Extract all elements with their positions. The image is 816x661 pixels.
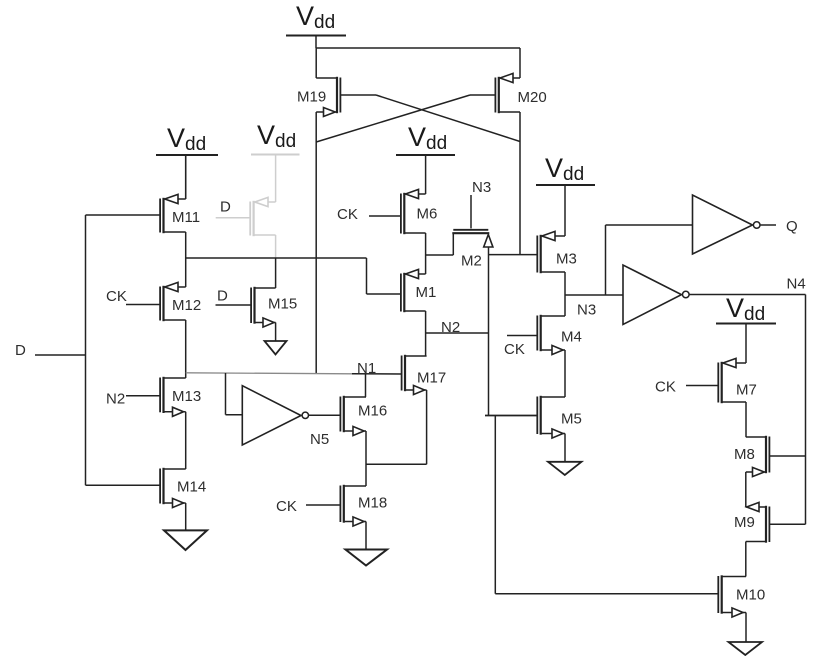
transistor M5 [485, 396, 582, 438]
svg-text:CK: CK [655, 379, 676, 396]
label CK at M7 gate [655, 379, 676, 396]
wire M11/M12 junction to M1 gate [186, 258, 401, 294]
ground under M15 [265, 323, 287, 355]
wire M7 drain to M8 [745, 402, 747, 437]
label Q [786, 218, 798, 235]
ground under M5 [548, 434, 582, 476]
wire M8 source to M9 [745, 472, 747, 507]
label D at M15 gate [217, 288, 228, 305]
wire junction down to M10 gate [495, 416, 718, 594]
wire riser to M19 source [315, 48, 317, 78]
svg-text:CK: CK [504, 341, 525, 358]
wire M1 drain to M17 (N2 column) [425, 311, 427, 356]
Vdd supply symbol (M3 column) [536, 153, 595, 236]
transistor M9 (mirrored) [734, 502, 806, 542]
label D input [15, 342, 26, 359]
transistor M19 [297, 77, 376, 117]
transistor M7 [686, 358, 757, 403]
wire M11 source to Vdd / stack rail [185, 155, 187, 530]
wire M3 drain to M4 (N3 node) [564, 272, 566, 316]
wire cross-couple M20 gate to M19 drain [316, 95, 470, 142]
wire riser to M20 source [519, 48, 521, 78]
svg-text:CK: CK [337, 206, 358, 223]
svg-text:CK: CK [276, 498, 297, 515]
label N1 [357, 360, 376, 377]
transistor M2 [426, 195, 493, 270]
svg-text:N2: N2 [106, 391, 125, 408]
wire M9 source to M10 drain [745, 542, 747, 577]
svg-text:M6: M6 [417, 206, 438, 223]
svg-text:N5: N5 [310, 431, 329, 448]
transistor M18 [306, 485, 387, 526]
Vdd supply symbol (M7 column) [716, 293, 776, 363]
svg-text:M10: M10 [736, 587, 765, 604]
svg-text:M9: M9 [734, 514, 755, 531]
Vdd supply symbol (top center) [286, 1, 346, 48]
label N2 at M13 gate [106, 391, 125, 408]
label N4 [787, 276, 806, 293]
wire N5 to M16 gate [309, 414, 341, 416]
wire N3 riser to inverter U3 [606, 225, 693, 295]
svg-text:M3: M3 [556, 251, 577, 268]
wire N1 drop to M16 drain [365, 374, 367, 397]
wire N3 to inverter U2 [565, 294, 623, 296]
svg-text:M5: M5 [561, 411, 582, 428]
svg-text:N4: N4 [787, 276, 806, 293]
label CK at M12 gate [106, 288, 127, 305]
wire M20 drain column down to M3 gate [519, 112, 521, 255]
ground under M10 [729, 613, 763, 656]
label N2 at M1 drain [441, 319, 460, 336]
transistor M14 [86, 468, 207, 508]
transistor M16 [340, 396, 387, 436]
wire M4 drain to M5 [564, 350, 566, 397]
svg-text:N3: N3 [577, 302, 596, 319]
inverter U2 (N3 to N4) [623, 265, 689, 325]
transistor M12 [126, 282, 201, 321]
svg-text:M20: M20 [518, 89, 547, 106]
svg-text:M2: M2 [461, 253, 482, 270]
svg-text:M14: M14 [177, 479, 206, 496]
label CK at M4 gate [504, 341, 525, 358]
wire M2/M20 to M3 gate [489, 254, 538, 256]
svg-text:N3: N3 [472, 179, 491, 196]
svg-text:M19: M19 [297, 89, 326, 106]
transistor M17 [402, 355, 447, 395]
transistor M1 [401, 269, 436, 312]
wire node N1 (M12/M13 junction to M17 gate) [186, 373, 402, 374]
wire Vdd top rail to M19/M20 [316, 47, 520, 49]
label CK at M6 gate [337, 206, 358, 223]
svg-text:M8: M8 [734, 446, 755, 463]
ghost transistor (unlabeled, light gray) [216, 155, 276, 259]
transistor M15 [216, 258, 298, 327]
inverter U1 (output N5) [242, 386, 308, 445]
wire cross-couple M19 gate to M20 drain [376, 95, 520, 142]
svg-text:M4: M4 [561, 329, 582, 346]
svg-text:D: D [217, 288, 228, 305]
wire left gate rail (D net) [85, 215, 87, 485]
wire M6 drain to M1 source [425, 233, 427, 274]
transistor M20 [470, 73, 547, 113]
ground under M14 [164, 530, 207, 550]
transistor M4 [507, 315, 582, 355]
wire M2 drain to M5 gate junction [485, 415, 537, 417]
svg-text:Q: Q [786, 218, 798, 235]
wire M16 source to M17 source and M18 drain [366, 390, 427, 486]
wire M19 drain column down to N1 [315, 112, 317, 374]
transistor M11 [86, 194, 201, 233]
wire M2 drain column down [488, 255, 490, 415]
svg-text:M18: M18 [358, 495, 387, 512]
label N3 at M3 drain [577, 302, 596, 319]
svg-text:N1: N1 [357, 360, 376, 377]
Vdd supply symbol (ghost column, dark text) [257, 120, 296, 152]
svg-text:M16: M16 [358, 403, 387, 420]
svg-text:M13: M13 [172, 388, 201, 405]
wire D input [35, 354, 86, 356]
svg-text:CK: CK [106, 288, 127, 305]
transistor M8 (mirrored) [734, 436, 806, 477]
svg-text:M17: M17 [417, 370, 446, 387]
transistor M3 [537, 231, 577, 273]
inverter U3 (output Q) [693, 195, 777, 254]
label N3 above M2 [472, 179, 491, 196]
wire N4 [689, 295, 805, 525]
Vdd supply symbol (M6 column) [396, 122, 455, 194]
Vdd bar (ghost, light gray) [251, 154, 300, 156]
svg-text:D: D [220, 199, 231, 216]
wire N1 to inverter U1 input [226, 373, 243, 415]
label CK at M18 gate [276, 498, 297, 515]
label N5 [310, 431, 329, 448]
wire N2 to M2 drain column [426, 332, 489, 334]
svg-text:M15: M15 [268, 296, 297, 313]
transistor M6 [369, 189, 437, 234]
svg-text:M11: M11 [172, 209, 200, 226]
Vdd supply symbol (M11 column) [156, 123, 218, 199]
ground under M18 [346, 522, 388, 566]
svg-text:D: D [15, 342, 26, 359]
transistor M10 [718, 575, 765, 617]
svg-text:M7: M7 [736, 382, 757, 399]
svg-text:M12: M12 [172, 297, 201, 314]
svg-text:M1: M1 [416, 284, 437, 301]
transistor M13 [126, 377, 201, 417]
label D at ghost transistor [220, 199, 231, 216]
